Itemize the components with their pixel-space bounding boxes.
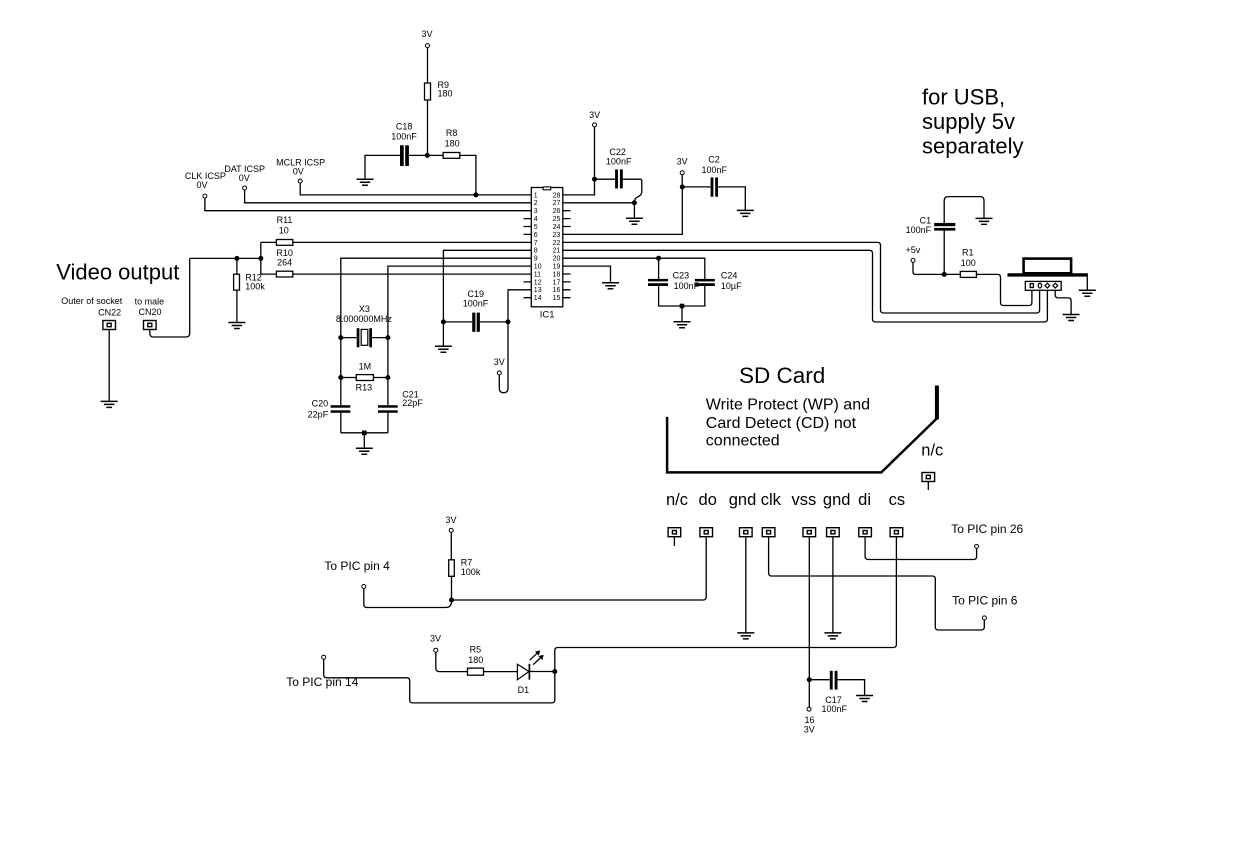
terminal 3V (C22) (589, 110, 600, 127)
node junction C22 left (592, 177, 597, 182)
terminal To PIC pin 6 (982, 616, 986, 620)
svg-text:vss: vss (792, 491, 817, 509)
svg-text:100nF: 100nF (606, 156, 632, 166)
terminal pad n/c (WP) (922, 473, 935, 482)
resistor R1 100 (960, 247, 976, 277)
ground (USB shell) (1079, 290, 1096, 296)
wire To PIC pin 4 to node (364, 589, 452, 608)
svg-text:100k: 100k (245, 281, 265, 291)
wire R11 to IC pin 7 (261, 241, 532, 243)
svg-text:3V: 3V (430, 634, 441, 644)
SD card outline (667, 417, 937, 473)
terminal pad CN22 Outer of socket (61, 296, 123, 330)
crystal X3 8.000000MHz (336, 304, 393, 347)
wire 3V to R5 (436, 652, 468, 671)
svg-text:18: 18 (553, 271, 561, 278)
text for USB supply note (922, 84, 1024, 158)
wire C2 left plate (682, 186, 710, 188)
svg-text:16: 16 (804, 715, 814, 725)
svg-text:10: 10 (279, 226, 289, 236)
ground (SD gnd 1) (737, 633, 754, 639)
svg-text:16: 16 (553, 287, 561, 294)
wire C1 top plate to ground (944, 197, 984, 223)
ground (C2) (737, 210, 754, 216)
wire C19 plates (443, 321, 508, 323)
svg-text:R5: R5 (470, 645, 482, 655)
svg-text:22: 22 (553, 240, 561, 247)
svg-text:di: di (858, 491, 871, 509)
wire video node rail (190, 257, 261, 259)
wire crystal left rail lower (340, 413, 342, 433)
terminal pad SD n/c (668, 528, 681, 537)
svg-text:Write Protect (WP) and: Write Protect (WP) and (706, 397, 870, 414)
terminal MCLR ICSP 0V (276, 157, 325, 183)
wire node to ground (633, 203, 635, 218)
wire SD gnd1 to ground (745, 537, 747, 633)
svg-text:3: 3 (534, 208, 538, 215)
svg-text:8.000000MHz: 8.000000MHz (336, 314, 393, 324)
text SD card note (706, 397, 870, 450)
terminal pad SD cs (890, 528, 903, 537)
svg-text:supply 5v: supply 5v (922, 109, 1015, 134)
svg-text:10: 10 (534, 264, 542, 271)
node junction 3V/C2/pin23 (680, 184, 685, 189)
svg-text:1: 1 (534, 192, 538, 199)
ground (C1) (976, 218, 993, 224)
node junction C19 left (441, 319, 446, 324)
wire SD di to PIC pin 26 terminal (865, 537, 977, 560)
svg-text:22pF: 22pF (308, 410, 329, 420)
wire IC pin 21 to USB pin 3 (563, 250, 1048, 322)
terminal 16 3V (vss supply) (804, 707, 815, 735)
svg-text:20: 20 (553, 256, 561, 263)
svg-text:12: 12 (534, 279, 542, 286)
node square junction crystal bottom (362, 431, 367, 436)
svg-text:connected: connected (706, 432, 780, 449)
svg-text:To PIC pin 26: To PIC pin 26 (951, 522, 1023, 536)
svg-text:3V: 3V (421, 29, 432, 39)
wire SD n/c stub (673, 537, 675, 546)
svg-text:1M: 1M (359, 361, 372, 371)
svg-text:X3: X3 (359, 304, 370, 314)
svg-text:100k: 100k (461, 567, 481, 577)
svg-text:15: 15 (553, 295, 561, 302)
wire SD clk to PIC pin 6 terminal (769, 537, 985, 630)
svg-text:22pF: 22pF (402, 398, 423, 408)
terminal 3V (C19) (494, 357, 505, 375)
svg-text:do: do (699, 491, 717, 509)
ground (SD gnd 2) (824, 633, 841, 639)
svg-text:3V: 3V (589, 110, 600, 120)
terminal pad SD clk (762, 528, 775, 537)
terminal +5v (906, 245, 921, 263)
svg-text:Outer of socket: Outer of socket (61, 296, 123, 306)
capacitor C1 100nF (906, 216, 956, 236)
wire IC pin 27 to node (563, 202, 635, 204)
wire SD cs to LED node (555, 537, 897, 672)
wire crystal bottom rail (341, 432, 388, 434)
wire R10 to IC pin 11 (261, 273, 532, 275)
svg-text:0V: 0V (293, 166, 304, 176)
wire vss node to 16/3V terminal (808, 680, 810, 708)
svg-text:To PIC pin 6: To PIC pin 6 (952, 594, 1018, 608)
wire CN22 to ground (108, 330, 110, 402)
node junction video/R12 (234, 256, 239, 261)
terminal To PIC pin 14 (322, 655, 326, 659)
svg-text:R1: R1 (962, 247, 974, 257)
svg-text:To PIC pin 4: To PIC pin 4 (324, 559, 390, 573)
svg-text:gnd: gnd (823, 491, 851, 509)
svg-text:3V: 3V (494, 357, 505, 367)
connector USB body (1024, 259, 1072, 274)
terminal pad SD gnd (1st) (740, 528, 753, 537)
wire C19 right hook to 3V terminal (499, 322, 508, 393)
svg-text:C1: C1 (920, 216, 932, 226)
svg-text:R7: R7 (461, 557, 473, 567)
capacitor C24 10uF (695, 270, 742, 290)
svg-text:R8: R8 (446, 128, 458, 138)
connector USB pin box with pin symbols (1025, 281, 1061, 290)
svg-text:C20: C20 (312, 399, 329, 409)
wire IC pin 23 to C2 node (563, 187, 683, 235)
svg-text:11: 11 (534, 271, 541, 278)
wire C17 left plate (809, 679, 830, 681)
svg-text:25: 25 (553, 216, 561, 223)
wire DAT to IC pin 2 (245, 190, 532, 203)
svg-text:100nF: 100nF (822, 704, 848, 714)
wire IC pin 9 to crystal left rail (341, 258, 532, 405)
resistor R7 100k (449, 557, 481, 577)
svg-text:3V: 3V (677, 157, 688, 167)
SD card outline right edge (thick) (935, 386, 939, 420)
capacitor C22 100nF (606, 147, 632, 188)
wire C17 right plate to ground (838, 680, 865, 696)
wire crystal bottom to ground (363, 433, 365, 448)
text SD pin labels n/c do gnd clk vss gnd di cs (666, 491, 905, 509)
svg-text:gnd: gnd (729, 491, 757, 509)
wire 3V to R9 (427, 48, 429, 83)
capacitor C19 100nF (463, 289, 489, 332)
node junction +5v/C1/R1 (942, 272, 947, 277)
wire node to R8 (427, 154, 443, 156)
svg-text:24: 24 (553, 224, 561, 231)
svg-text:C23: C23 (673, 270, 690, 280)
node junctions R13 row (338, 375, 343, 380)
terminal To PIC pin 26 (975, 544, 979, 548)
svg-text:n/c: n/c (666, 491, 688, 509)
svg-text:To PIC pin 14: To PIC pin 14 (286, 675, 358, 689)
svg-text:3V: 3V (445, 515, 456, 525)
IC1 right pin numbers 28-15 (553, 192, 561, 302)
node junction LED/cs (552, 669, 557, 674)
svg-text:180: 180 (468, 655, 483, 665)
resistor R11 10 (276, 215, 292, 245)
capacitor C20 22pF (308, 399, 351, 420)
wire SD gnd2 to ground (832, 537, 834, 633)
resistor R5 180 (468, 645, 484, 676)
ground (C17) (856, 696, 873, 702)
resistor R12 100k (234, 273, 266, 292)
svg-text:5: 5 (534, 224, 538, 231)
svg-text:21: 21 (553, 248, 561, 255)
wire C22 right plate jog to pin 27 node (623, 179, 642, 203)
wire C18 right plate to node (409, 154, 427, 156)
svg-text:CN22: CN22 (98, 307, 121, 317)
ground (pin 19) (602, 283, 619, 289)
svg-text:8: 8 (534, 248, 538, 255)
wire R1 to USB pin 1 (976, 274, 1032, 305)
terminal pad SD gnd (2nd) (827, 528, 840, 537)
wire node to R1 (944, 273, 960, 275)
svg-text:264: 264 (277, 257, 292, 267)
svg-text:28: 28 (553, 192, 561, 199)
terminal 3V (top, feeds R9) (421, 29, 432, 47)
wire USB bar right end to ground (1086, 277, 1088, 290)
svg-text:cs: cs (889, 491, 906, 509)
resistor R8 180 (443, 128, 460, 159)
wire n/c pad stub (927, 482, 929, 491)
svg-text:100nF: 100nF (906, 225, 932, 235)
node junction pin27/C22 (632, 200, 637, 205)
capacitor C18 100nF (391, 122, 417, 166)
svg-text:14: 14 (534, 295, 542, 302)
svg-text:180: 180 (438, 88, 453, 98)
wire R8 to IC pin 1 net (460, 155, 476, 195)
terminal pad SD do (700, 528, 713, 537)
wire C23 top stem (658, 258, 660, 279)
svg-text:C2: C2 (708, 154, 720, 164)
wire IC pin 20 to C23/C24 top rail (563, 258, 705, 279)
wire IC pin 19 to ground (563, 266, 611, 282)
resistor R10 264 (276, 248, 293, 277)
svg-text:C18: C18 (396, 122, 413, 132)
wire IC pin 10 to crystal right rail (388, 266, 531, 405)
node junction R9/C18/R8 (425, 153, 430, 158)
svg-text:100: 100 (961, 258, 976, 268)
wire C2 right plate to ground (718, 187, 745, 210)
ground (C19) (435, 346, 452, 352)
terminal DAT ICSP 0V (224, 164, 265, 190)
ground (crystal) (356, 448, 373, 454)
terminal CLK ICSP 0V (185, 171, 226, 198)
wire +5v to node (913, 262, 944, 274)
wire IC pin 8 to C19 left (443, 250, 531, 322)
node junction R8/pin1 wire (473, 192, 478, 197)
capacitor C17 100nF (822, 671, 848, 714)
svg-text:13: 13 (534, 287, 542, 294)
wire CLK to IC pin 3 (205, 198, 531, 211)
terminal pad SD di (859, 528, 872, 537)
svg-text:4: 4 (534, 216, 538, 223)
svg-text:9: 9 (534, 256, 538, 263)
svg-text:23: 23 (553, 232, 561, 239)
wire crystal right rail lower (387, 413, 389, 433)
svg-text:7: 7 (534, 240, 538, 247)
ground (R12) (228, 323, 245, 329)
ground (C18) (357, 179, 374, 185)
ground (USB pin 4) (1063, 315, 1080, 321)
wire SD do to R7 node (452, 537, 707, 600)
wire USB pin 4 to ground (1055, 290, 1071, 314)
wire SD vss down to C17 node (808, 537, 810, 680)
terminal pad CN20 to male (135, 297, 165, 330)
capacitor C21 22pF (378, 390, 423, 413)
wire C19 left node to ground (442, 322, 444, 346)
svg-text:2: 2 (534, 200, 538, 207)
wire CN20 to video node (150, 258, 190, 337)
wire MCLR to IC pin 1 (300, 183, 531, 195)
svg-text:100nF: 100nF (702, 165, 728, 175)
wire R12 to ground (236, 290, 238, 322)
svg-text:6: 6 (534, 232, 538, 239)
svg-text:3V: 3V (804, 725, 815, 735)
svg-text:0V: 0V (239, 173, 250, 183)
node junction R7/do (449, 598, 454, 603)
node square junction C23/C24 bottom (680, 304, 685, 309)
wire LED to node (529, 671, 554, 673)
svg-text:IC1: IC1 (540, 310, 555, 321)
svg-text:0V: 0V (196, 180, 207, 190)
wire C18 left plate down to ground (365, 155, 400, 179)
svg-text:CN20: CN20 (138, 307, 161, 317)
resistor R9 180 (425, 80, 453, 100)
svg-text:SD Card: SD Card (739, 363, 825, 388)
wire C22 left plate to 3V rail (595, 178, 616, 180)
svg-text:R11: R11 (277, 215, 293, 225)
wire C1 bottom plate to +5v node (943, 231, 945, 275)
wire video node to R12 (236, 258, 238, 274)
svg-text:R13: R13 (356, 382, 373, 392)
ground (C22/pin27) (626, 218, 643, 224)
wire node to To PIC pin 14 terminal (324, 659, 555, 703)
svg-text:for USB,: for USB, (922, 84, 1005, 109)
wire IC pin 22 to USB pin 2 (563, 242, 1040, 313)
wire 3V to C2 node (681, 175, 683, 187)
wire R9 to node C18/R8 (427, 100, 429, 155)
wire R5 to LED (484, 671, 518, 673)
wire 3V down through C22 node to IC pin 28 (563, 127, 595, 195)
terminal To PIC pin 4 (362, 585, 366, 589)
terminal 3V (R5) (430, 634, 441, 653)
svg-text:Video output: Video output (56, 259, 179, 284)
wire R7 to node (451, 576, 453, 600)
wire C23/C24 bottom rail to ground (659, 286, 705, 322)
svg-text:C24: C24 (721, 270, 738, 280)
svg-text:26: 26 (553, 208, 561, 215)
wire R13 to rails (341, 377, 388, 379)
IC1 left pin numbers 1-14 (534, 192, 542, 302)
node junction vss/C17 (807, 677, 812, 682)
svg-text:+5v: +5v (906, 245, 921, 255)
ground (C23/C24) (674, 322, 691, 328)
capacitor C2 100nF (702, 154, 728, 196)
terminal 3V (C2) (677, 157, 688, 175)
terminal 3V (R7) (445, 515, 456, 533)
node junction C23 top (656, 256, 661, 261)
IC U1 body (IC1 PIC 28-pin DIP) (531, 187, 563, 321)
resistor R13 1M (356, 361, 374, 392)
svg-text:n/c: n/c (921, 442, 943, 460)
svg-text:D1: D1 (518, 685, 530, 695)
terminal pad SD vss (803, 528, 816, 537)
ground (CN22) (101, 401, 118, 407)
svg-text:100nF: 100nF (463, 298, 489, 308)
svg-text:to male: to male (135, 297, 165, 307)
svg-text:Card Detect (CD) not: Card Detect (CD) not (706, 415, 857, 432)
LED D1 (517, 651, 543, 696)
node junction video/R11/R10 (258, 256, 263, 261)
svg-text:19: 19 (553, 264, 561, 271)
wire IC pin 13 to C19 right (508, 290, 531, 322)
wire 3V to R7 (450, 532, 452, 559)
svg-text:17: 17 (553, 279, 561, 286)
svg-text:10µF: 10µF (721, 281, 742, 291)
connector USB base bar (1008, 273, 1088, 276)
IC1 pin stubs (unconnected pins 4,5,6,12,14,15,16,17,18,24,25,26) (524, 211, 571, 298)
svg-text:27: 27 (553, 200, 561, 207)
node junctions crystal row (338, 335, 343, 340)
wire crystal to rails (341, 337, 388, 339)
capacitor C23 100nF (648, 270, 700, 290)
svg-text:separately: separately (922, 134, 1024, 159)
svg-text:180: 180 (445, 138, 460, 148)
svg-text:clk: clk (761, 491, 782, 509)
svg-text:100nF: 100nF (391, 131, 417, 141)
node junction C19 right (506, 319, 511, 324)
wire R11-R10 vertical link (260, 242, 262, 274)
